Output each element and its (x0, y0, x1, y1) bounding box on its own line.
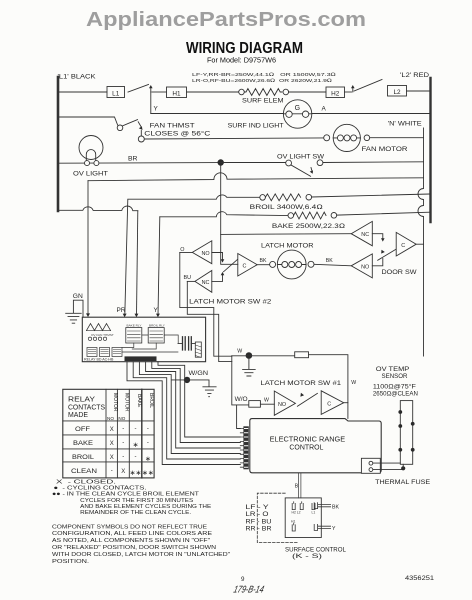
wire to H1 (152, 91, 167, 93)
svg-text:X: X (121, 469, 125, 475)
door sw NC out arrow (372, 234, 383, 239)
svg-text:W/O: W/O (235, 397, 248, 403)
svg-text:RR - BR: RR - BR (246, 527, 273, 533)
svg-text:NO: NO (107, 416, 114, 421)
wire BR dot to ov light sw (221, 162, 286, 164)
svg-text:DOOR SW: DOOR SW (382, 269, 418, 276)
svg-text:∗∗: ∗∗ (130, 470, 142, 477)
svg-text:THERMAL FUSE: THERMAL FUSE (375, 479, 431, 486)
wire oven return to N bus with hop (88, 173, 424, 181)
wire B twin lead to surface control (298, 473, 301, 498)
svg-text:WIRING DIAGRAM: WIRING DIAGRAM (186, 40, 303, 57)
svg-text:MADE: MADE (68, 412, 88, 419)
wire W/O feed (232, 356, 249, 405)
svg-text:X - CLOSED.: X - CLOSED. (56, 480, 117, 486)
svg-text:Y: Y (154, 307, 159, 314)
N bus (with hops over broil and bake lines) (418, 128, 424, 356)
wire fan motor to N bus (370, 137, 424, 139)
svg-text:-: - (135, 426, 137, 432)
latch sw2 NO out arrow (212, 253, 223, 261)
svg-text:H2 L2: H2 L2 (292, 511, 301, 515)
thermal cutout fuse on W line (295, 352, 309, 358)
svg-text:COMPONENT SYMBOLS DO NOT REFLE: COMPONENT SYMBOLS DO NOT REFLECT TRUE (52, 524, 207, 530)
junction dot BR (218, 159, 224, 165)
svg-text:9: 9 (241, 576, 245, 583)
wire W line to fuse (232, 355, 295, 357)
wire Y to receptacle (151, 113, 284, 115)
wire H1 to surf elem (187, 91, 239, 93)
svg-text:A: A (322, 106, 327, 113)
wire fuse to NO1 (260, 403, 274, 405)
svg-text:C: C (401, 243, 405, 249)
surface control terminal Y (314, 524, 330, 530)
ground GN (66, 313, 82, 323)
fuse on W/O line (249, 401, 261, 408)
wire L1 bottom with hops (PR feed) (58, 206, 138, 211)
ERC edge connector (243, 426, 248, 469)
relay K2 (148, 328, 164, 343)
svg-text:BK: BK (260, 258, 267, 264)
wire BU apex (187, 280, 195, 282)
wire PR vertical into relay board (137, 211, 138, 316)
svg-text:AS NOTED, ALL COMPONENTS SHOWN: AS NOTED, ALL COMPONENTS SHOWN IN "OFF" (52, 538, 210, 544)
bake element terminal (288, 213, 294, 219)
wire O apex (180, 252, 193, 254)
wire H2 to switch (345, 91, 352, 93)
latch sw1 NO triangle (274, 391, 295, 415)
svg-text:-: - (122, 454, 124, 460)
svg-text:O: O (180, 247, 184, 253)
door sw lever arrow (378, 249, 396, 260)
svg-text:1100Ω@75°F: 1100Ω@75°F (373, 382, 416, 390)
svg-text:NC: NC (202, 280, 210, 286)
svg-text:-: - (111, 468, 113, 474)
svg-text:L1: L1 (112, 91, 120, 98)
svg-text:Y: Y (332, 526, 336, 532)
relay K1 (126, 328, 142, 343)
svg-text:NO: NO (201, 251, 209, 257)
fan thermostat contact 2 (140, 131, 142, 137)
harness wire 5 (133, 362, 240, 459)
ov light sw lever (291, 165, 311, 176)
svg-text:LATCH MOTOR SW #1: LATCH MOTOR SW #1 (261, 380, 342, 387)
wire L1 to relay L1 (58, 91, 107, 93)
surface control cap H1 (292, 523, 295, 531)
svg-text:BAKE: BAKE (136, 394, 142, 408)
relay board resistor (195, 342, 201, 357)
ov temp sensor body (400, 401, 412, 465)
arrow at Y node (150, 88, 152, 93)
junction dot W (246, 352, 253, 359)
svg-text:SENSOR: SENSOR (382, 373, 408, 380)
svg-text:BAKE RLY: BAKE RLY (127, 323, 142, 327)
wire latch motor to door sw NO (314, 264, 351, 266)
svg-text:-: - (122, 440, 124, 446)
svg-text:BROIL: BROIL (72, 454, 94, 461)
svg-text:-: - (135, 454, 137, 460)
svg-text:FAN THMST: FAN THMST (150, 122, 195, 129)
wire vertical into relay board (W) (87, 181, 89, 315)
svg-text:X: X (110, 455, 114, 461)
fan thermostat lever (122, 120, 137, 126)
svg-text:BROIL 3400W,6.4Ω: BROIL 3400W,6.4Ω (250, 204, 323, 211)
svg-text:LATCH MOTOR: LATCH MOTOR (261, 242, 314, 249)
svg-text:H2: H2 (331, 91, 340, 98)
wire receptacle to L2 bus (312, 113, 430, 115)
svg-text:CLOSES @ 56°C: CLOSES @ 56°C (144, 130, 210, 138)
svg-text:● - CYCLING CONTACTS.: ● - CYCLING CONTACTS. (54, 486, 147, 492)
svg-text:SURF IND LIGHT: SURF IND LIGHT (228, 123, 284, 130)
ov light sw contact 1 (286, 160, 292, 166)
svg-text:Y: Y (154, 106, 159, 113)
svg-text:PR: PR (117, 307, 126, 314)
svg-text:BROIL RLY: BROIL RLY (149, 323, 165, 327)
handwritten 179-B-14 (232, 585, 265, 596)
relay board connector strip (125, 356, 157, 361)
broil element terminal (260, 195, 266, 201)
resistor bake element (294, 212, 326, 219)
svg-text:NO: NO (278, 402, 286, 408)
svg-text:WITH DOOR CLOSED, LATCH MOTOR: WITH DOOR CLOSED, LATCH MOTOR IN "UNLATC… (52, 552, 230, 558)
wire bake line with Y tap (160, 212, 288, 217)
svg-text:W: W (237, 349, 242, 355)
door sw NO triangle (351, 254, 372, 278)
svg-text:BAKE 2500W,22.3Ω: BAKE 2500W,22.3Ω (272, 223, 345, 230)
svg-text:(K - S): (K - S) (292, 554, 322, 560)
latch motor terminal right (308, 261, 314, 267)
svg-text:RELAY BD AC-HB: RELAY BD AC-HB (84, 357, 114, 361)
svg-text:SURFACE CONTROL: SURFACE CONTROL (285, 546, 346, 553)
surface control cap H2 (292, 502, 295, 510)
svg-text:OV FAN THMST: OV FAN THMST (91, 333, 114, 337)
svg-text:OFF: OFF (75, 426, 90, 433)
wire ov light sw to N bus (323, 161, 424, 164)
wire GN (73, 300, 83, 317)
wire thermal fuse to sensor top (373, 462, 400, 464)
wire W/GN (172, 380, 209, 386)
svg-text:OV LIGHT SW: OV LIGHT SW (277, 154, 325, 161)
svg-text:OV LIGHT: OV LIGHT (73, 170, 108, 177)
svg-text:GN: GN (73, 293, 83, 300)
svg-text:∗: ∗ (145, 456, 151, 463)
fan motor (333, 124, 360, 151)
svg-text:LR-O,RF-BU=2600W,26.6Ω OR 262: LR-O,RF-BU=2600W,26.6Ω OR 2620W,21.9Ω (192, 78, 332, 84)
latch sw1 C triangle (321, 391, 344, 415)
svg-text:NO: NO (361, 264, 369, 270)
wire Y vertical into relay board (158, 217, 160, 316)
svg-text:BK: BK (326, 258, 333, 264)
svg-text:AppliancePartsPros.com: AppliancePartsPros.com (86, 8, 366, 31)
svg-text:L2: L2 (393, 89, 401, 96)
wire BR branch to door sw NC (221, 233, 352, 236)
fan thermostat contact 1 (117, 125, 123, 131)
harness wire 3 (146, 362, 241, 448)
svg-text:X: X (110, 427, 114, 433)
relay board coils (87, 348, 97, 357)
relay board (82, 317, 205, 362)
latch sw2 NC out arrow (212, 275, 223, 282)
svg-text:L1: L1 (312, 511, 316, 515)
door sw NO out (372, 259, 383, 266)
svg-text:179-B-14: 179-B-14 (232, 585, 265, 596)
wire L1 to fan thermostat (58, 117, 118, 125)
wire BR vertical to latch C (221, 166, 238, 265)
svg-text:For Model: D9757W6: For Model: D9757W6 (207, 56, 276, 65)
svg-text:CONTACTS: CONTACTS (68, 404, 105, 411)
wire L1 to oven light (BR) (58, 162, 218, 165)
latch sw1 lever arrow (297, 393, 317, 406)
svg-text:RELAY: RELAY (68, 397, 95, 404)
wire broil from relay board (125, 195, 260, 316)
svg-text:SURF ELEM: SURF ELEM (242, 98, 284, 105)
svg-text:X: X (110, 441, 114, 447)
electronic range control box (250, 419, 381, 473)
switch lever L2 (354, 80, 382, 92)
svg-text:BROIL: BROIL (148, 393, 154, 408)
svg-text:MOTOR: MOTOR (124, 393, 130, 412)
svg-text:-: - (147, 426, 149, 432)
svg-text:∗∗: ∗∗ (142, 470, 154, 477)
thermal fuse box (361, 458, 380, 473)
junction dot W/GN (184, 377, 190, 383)
svg-text:H1: H1 (172, 91, 181, 98)
harness wire 4 (139, 362, 240, 454)
door sw C triangle (396, 232, 416, 256)
wire Y vertical (150, 92, 152, 114)
svg-text:BK: BK (332, 504, 339, 510)
ground W/GN (203, 387, 216, 397)
relay L2 box (388, 86, 407, 97)
arrow at H2 switch (352, 88, 354, 93)
svg-text:W: W (264, 398, 269, 404)
oven light lamp (79, 136, 103, 160)
surface control cap L2 (300, 502, 303, 510)
resistor broil element (265, 194, 300, 201)
resistor surf elem (244, 89, 281, 96)
svg-text:'L2' RED: 'L2' RED (400, 72, 429, 79)
latch motor sw2 NC contact triangle (195, 271, 212, 293)
wire surf elem to H2 (289, 91, 326, 93)
wire C to latch motor (257, 264, 270, 266)
latch motor sw2 NO contact triangle (192, 241, 212, 264)
svg-text:CYCLES FOR THE FIRST 30 MINUTE: CYCLES FOR THE FIRST 30 MINUTES (80, 498, 193, 504)
wire broil to L2 bus (312, 194, 430, 197)
svg-text:∗: ∗ (133, 442, 139, 449)
svg-text:AND BAKE ELEMENT CYCLES DURING: AND BAKE ELEMENT CYCLES DURING THE (80, 504, 211, 510)
harness wire 2 (152, 362, 241, 443)
svg-text:2650Ω@CLEAN: 2650Ω@CLEAN (373, 390, 418, 397)
surface control box (285, 498, 321, 538)
latch motor (277, 250, 306, 279)
svg-text:G: G (295, 105, 300, 112)
svg-text:C: C (327, 401, 331, 407)
ov light sw contact 2 (317, 160, 323, 166)
bake element terminal 2 (331, 213, 337, 219)
svg-text:OR "RELAXED" POSITION, DOOR SW: OR "RELAXED" POSITION, DOOR SWITCH SHOWN (52, 545, 216, 551)
latch motor terminal left (270, 261, 276, 267)
svg-text:'N' WHITE: 'N' WHITE (388, 121, 422, 128)
broil element terminal 2 (306, 194, 312, 200)
svg-text:W/GN: W/GN (189, 370, 209, 377)
svg-text:LR - O: LR - O (246, 512, 269, 518)
wire O path down and around board (180, 253, 232, 357)
surf elem terminal 2 (283, 89, 289, 95)
svg-text:FAN MOTOR: FAN MOTOR (362, 146, 408, 153)
svg-text:BAKE: BAKE (73, 440, 94, 447)
dashed harness bracket (257, 493, 297, 542)
svg-text:MOTOR: MOTOR (112, 393, 118, 412)
door sw NC triangle (351, 221, 372, 245)
svg-text:NO: NO (118, 416, 125, 421)
svg-text:CONTROL: CONTROL (289, 443, 323, 452)
fan motor terminal left (324, 135, 330, 141)
svg-text:C: C (243, 263, 247, 269)
svg-text:LF-Y,RR-BR=250W,44.1Ω OR 150: LF-Y,RR-BR=250W,44.1Ω OR 1500W,57.3Ω (192, 72, 336, 78)
latch sw2 C triangle (238, 254, 257, 277)
relay H2 box (326, 87, 345, 98)
relay board connector sawtooth (87, 324, 111, 331)
harness wire 1 board to ERC (158, 362, 240, 437)
svg-text:'L1' BLACK: 'L1' BLACK (58, 74, 97, 81)
surface control cap L1 (312, 503, 315, 509)
fan motor terminal right (364, 135, 370, 141)
svg-text:LF - Y: LF - Y (246, 505, 269, 511)
wire thermal fuse to sensor bottom (373, 469, 402, 471)
svg-text:BU: BU (184, 275, 192, 281)
relay L1 box (107, 87, 125, 98)
svg-text:NC: NC (361, 232, 369, 238)
svg-text:●● - IN THE CLEAN CYCLE BROIL: ●● - IN THE CLEAN CYCLE BROIL ELEMENT (52, 492, 199, 498)
svg-text:4356251: 4356251 (405, 575, 435, 582)
surface control terminal BK (314, 503, 330, 509)
wire bake to L2 bus (337, 212, 430, 215)
relay contacts table (63, 389, 154, 478)
svg-text:-: - (122, 426, 124, 432)
svg-text:BR: BR (128, 155, 138, 162)
svg-text:LATCH MOTOR SW #2: LATCH MOTOR SW #2 (189, 298, 272, 305)
wire C1 apex to W vertical (344, 402, 348, 404)
relay board capacitor (183, 337, 192, 350)
surf elem receptacle G (283, 100, 311, 128)
latch sw2 lever (224, 260, 238, 272)
wire fuse to ERC (309, 355, 348, 419)
svg-text:REMAINDER OF THE CLEAN CYCLE.: REMAINDER OF THE CLEAN CYCLE. (80, 510, 191, 516)
relay board internal wires (122, 335, 178, 352)
ground under W dot (243, 359, 256, 377)
L2 bus (429, 78, 431, 222)
wire thermostat to fan motor (144, 138, 323, 139)
wire W/O down to ERC connector (237, 405, 241, 429)
L1 bus (57, 77, 60, 211)
svg-text:CONFIGURATION, ALL FEED LINE C: CONFIGURATION, ALL FEED LINE COLORS ARE (52, 531, 212, 537)
svg-text:POSITION.: POSITION. (52, 559, 89, 565)
svg-text:H1: H1 (291, 520, 295, 524)
harness wire 6 (127, 362, 240, 465)
wire BU path down and around board (187, 281, 232, 361)
svg-text:OV TEMP: OV TEMP (376, 366, 410, 373)
relay H1 box (167, 87, 187, 98)
wire door sw C to N bus (416, 243, 423, 245)
svg-text:RF - BU: RF - BU (246, 519, 272, 525)
surf elem terminal (239, 89, 245, 95)
wire L2 box to L2 bus (407, 90, 431, 92)
svg-text:-: - (147, 440, 149, 446)
svg-text:CLEAN: CLEAN (71, 468, 97, 475)
svg-text:W: W (351, 380, 356, 386)
switch lever L1 (128, 85, 149, 93)
